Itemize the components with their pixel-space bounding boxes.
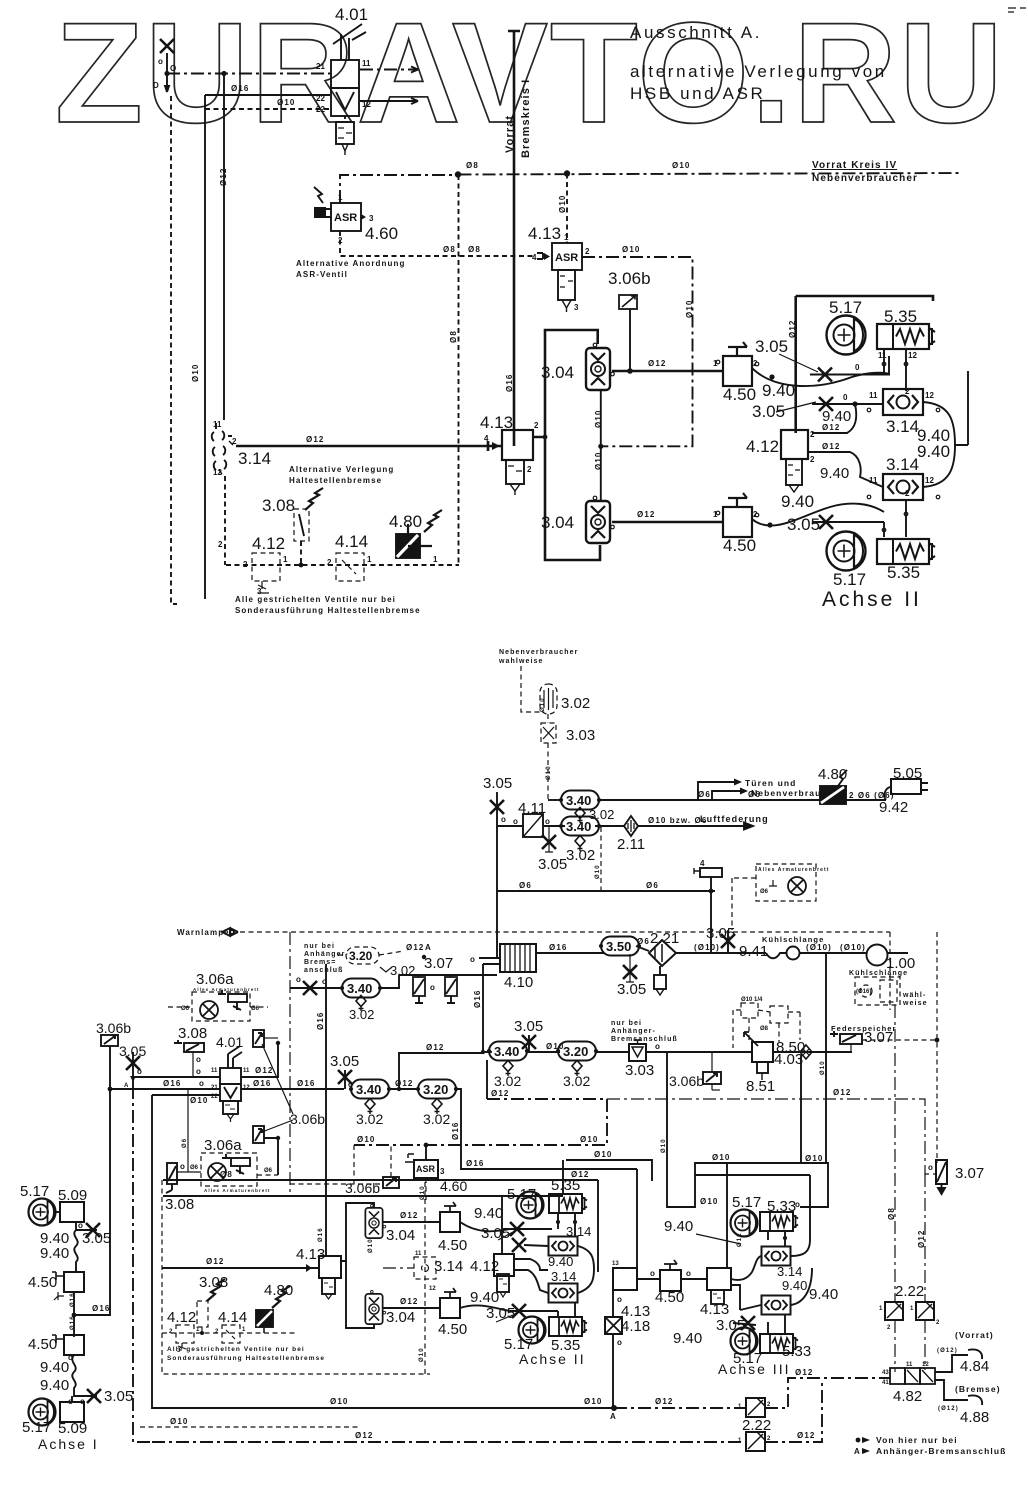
svg-text:O: O — [170, 64, 176, 73]
svg-text:Ø12: Ø12 — [637, 510, 655, 519]
svg-text:Achse III: Achse III — [718, 1361, 790, 1377]
svg-text:3.05: 3.05 — [514, 1018, 543, 1035]
svg-text:2: 2 — [527, 465, 532, 474]
svg-text:3.08: 3.08 — [262, 496, 295, 515]
dashed pilot sub-circuit above 8.50 — [733, 1003, 800, 1048]
svg-text:Ø12: Ø12 — [255, 1066, 273, 1075]
svg-text:3.20: 3.20 — [563, 1044, 588, 1059]
svg-text:Ø16: Ø16 — [505, 374, 514, 392]
svg-text:Ø12: Ø12 — [426, 1043, 444, 1052]
svg-text:Von hier nur bei: Von hier nur bei — [876, 1435, 958, 1445]
wire: feeds above axle III — [667, 1052, 828, 1207]
svg-text:11: 11 — [869, 476, 878, 485]
wire: dash-dot to trailer 2.22 (left) — [894, 1005, 896, 1302]
wire: dashed bus y=565 — [226, 564, 459, 566]
svg-text:Ø16: Ø16 — [466, 1159, 484, 1168]
svg-text:3.02: 3.02 — [589, 807, 614, 822]
svg-text:3.14: 3.14 — [886, 417, 919, 436]
wire: bottom dash-dot line y=1442 — [152, 1441, 746, 1443]
check valve 3.03 — [629, 1040, 646, 1061]
wire: O12 from 3.04 bottom to 4.50 bottom — [612, 521, 723, 524]
svg-text:3.07: 3.07 — [424, 955, 453, 972]
svg-text:Ø8: Ø8 — [760, 1026, 769, 1032]
svg-text:9.40: 9.40 — [781, 492, 814, 511]
wire: cross line — [524, 1245, 548, 1246]
wire: x=483 down from dryer stub to row 1052 — [482, 964, 484, 1052]
svg-text:3.02: 3.02 — [561, 695, 590, 712]
text: Von hier nur bei — [856, 1438, 861, 1443]
svg-text:Ø10: Ø10 — [685, 300, 694, 318]
wire: ASR 4.60 port1 up and dash-dot to junction — [340, 175, 456, 203]
svg-text:3.05: 3.05 — [82, 1230, 111, 1247]
svg-text:ASR: ASR — [416, 1164, 436, 1174]
svg-text:Alle gestrichelten Ventile nur: Alle gestrichelten Ventile nur bei — [167, 1346, 305, 1353]
svg-text:11: 11 — [362, 59, 371, 68]
svg-text:o: o — [158, 57, 163, 66]
svg-text:3.40: 3.40 — [347, 981, 372, 996]
svg-text:Ø10 1/4: Ø10 1/4 — [741, 997, 763, 1003]
wire: Vorrat Bremskreis I vertical line — [508, 31, 520, 446]
svg-text:1: 1 — [564, 233, 569, 242]
svg-text:4.50: 4.50 — [28, 1336, 57, 1353]
svg-text:9.40: 9.40 — [820, 465, 849, 482]
regulator under ASR 4.13 — [558, 270, 575, 312]
svg-text:Ø6: Ø6 — [698, 790, 711, 799]
pressure reducer 3.06b (lower symbol) — [253, 1126, 264, 1143]
svg-text:Ø16: Ø16 — [451, 1122, 460, 1140]
svg-text:Nebenverbraucher: Nebenverbraucher — [812, 173, 918, 184]
svg-text:12: 12 — [925, 476, 934, 485]
wire: inner dashed box right edge — [424, 1182, 426, 1374]
svg-text:3.05: 3.05 — [104, 1388, 133, 1405]
svg-text:Ø16: Ø16 — [318, 1227, 324, 1242]
svg-text:Ø10: Ø10 — [368, 1238, 374, 1253]
wire: feed row y=1262 — [162, 1267, 319, 1269]
svg-text:Ø10: Ø10 — [558, 195, 567, 213]
svg-text:3.05: 3.05 — [787, 515, 820, 534]
svg-text:o: o — [545, 817, 550, 826]
regulator under 4.01 — [336, 116, 354, 155]
svg-text:(Ø12): (Ø12) — [937, 1348, 958, 1354]
svg-text:o: o — [655, 1042, 660, 1051]
svg-text:Achse II: Achse II — [519, 1351, 586, 1367]
svg-text:Anhänger-: Anhänger- — [611, 1028, 656, 1035]
svg-text:2: 2 — [905, 489, 910, 498]
svg-text:2.11: 2.11 — [617, 836, 645, 853]
svg-text:11: 11 — [213, 420, 222, 429]
svg-text:2: 2 — [753, 359, 758, 368]
svg-text:4: 4 — [700, 859, 705, 868]
svg-text:Alles Armaturenbrett: Alles Armaturenbrett — [758, 867, 830, 873]
wire: row continues to 8.50 — [712, 1051, 753, 1053]
wire: bottom coupling to spring brake bottom — [884, 500, 906, 537]
svg-text:3.02: 3.02 — [563, 1073, 590, 1089]
svg-text:3.05: 3.05 — [483, 775, 512, 792]
svg-text:2: 2 — [232, 437, 237, 446]
svg-text:(Bremse): (Bremse) — [955, 1384, 1001, 1394]
svg-text:Ø8: Ø8 — [466, 161, 479, 170]
ABS valve 3.04 (bottom diagram bottom) — [365, 1290, 385, 1324]
svg-text:(Ø16): (Ø16) — [856, 989, 871, 995]
svg-text:11: 11 — [869, 391, 878, 400]
svg-text:41: 41 — [882, 1380, 889, 1386]
svg-text:Ø12: Ø12 — [219, 168, 228, 186]
coupling 3.14 (axle III lower) — [762, 1296, 791, 1315]
wire: row y=1077 to 3.06b top — [133, 1076, 220, 1078]
svg-text:3.20: 3.20 — [423, 1082, 448, 1097]
svg-text:o: o — [180, 1162, 185, 1171]
wire: O12 to hand valves — [383, 1221, 440, 1223]
svg-text:Ø10: Ø10 — [190, 1096, 208, 1105]
brake chamber 5.17 (bottom) — [519, 1317, 546, 1344]
svg-text:Vorrat: Vorrat — [504, 115, 516, 153]
svg-text:Ø10: Ø10 — [672, 161, 690, 170]
wire: from 4.01 port 11 to right arrow — [360, 67, 418, 73]
svg-text:3.06b: 3.06b — [608, 269, 651, 288]
svg-text:2: 2 — [810, 430, 815, 439]
svg-text:11: 11 — [906, 1362, 913, 1368]
svg-text:3: 3 — [574, 303, 579, 312]
valve 4.13 (axle II bottom cluster) — [613, 1268, 637, 1290]
wire: dash-dot from 925 down to 2.22 — [924, 1174, 926, 1302]
svg-text:Ø16: Ø16 — [473, 990, 482, 1008]
svg-text:3.40: 3.40 — [566, 819, 591, 834]
svg-text:A: A — [425, 943, 431, 952]
svg-text:9.40: 9.40 — [917, 442, 950, 461]
svg-text:Ø8: Ø8 — [443, 245, 456, 254]
wire: 4.12 lower port to bottom coupling — [808, 452, 883, 487]
svg-text:ASR-Ventil: ASR-Ventil — [296, 270, 348, 279]
svg-text:A: A — [610, 1412, 616, 1421]
svg-text:12: 12 — [243, 1085, 250, 1091]
svg-text:Ø10: Ø10 — [820, 1060, 826, 1075]
svg-text:o: o — [78, 1221, 83, 1230]
svg-text:12: 12 — [925, 391, 934, 400]
overflow valve 3.20 on main row — [416, 1080, 457, 1099]
wire: line right of 4.01 port 12 — [360, 98, 418, 104]
svg-text:Ø12: Ø12 — [655, 1397, 673, 1406]
svg-text:Alternative Anordnung: Alternative Anordnung — [296, 259, 405, 268]
svg-text:3.06b: 3.06b — [669, 1073, 704, 1089]
svg-text:2: 2 — [810, 455, 815, 464]
overflow valve 3.40 row y=988 — [290, 987, 344, 989]
wire: big dashed box right edge — [889, 932, 891, 1010]
svg-text:Ø12: Ø12 — [833, 1088, 851, 1097]
svg-text:Ø12: Ø12 — [306, 435, 324, 444]
wire: supply loop from 4.13 to both 3.04 valves — [533, 330, 598, 437]
wire: line y=800 to 4.80 and 5.05 — [599, 799, 886, 801]
coupling 3.14 (lower) — [549, 1284, 578, 1303]
svg-text:9.40: 9.40 — [782, 1278, 807, 1293]
svg-text:Ø10: Ø10 — [419, 1347, 425, 1362]
spring brake 5.33 (bottom) — [760, 1334, 798, 1353]
svg-text:9.40: 9.40 — [40, 1359, 69, 1376]
wire: top right supply line and drop to 4.12 — [796, 296, 933, 301]
svg-text:9.40: 9.40 — [809, 1286, 838, 1303]
svg-text:Ø8: Ø8 — [449, 330, 458, 343]
svg-text:4.80: 4.80 — [389, 512, 422, 531]
brace right 9.40 — [791, 1175, 812, 1305]
wire: dashed down from 3.03 to line — [547, 743, 549, 800]
svg-text:21: 21 — [316, 62, 325, 71]
svg-text:3.14: 3.14 — [777, 1264, 802, 1279]
svg-text:o: o — [196, 1055, 201, 1064]
valve 3.08 (lower left) — [166, 1163, 177, 1196]
svg-text:Ø10 bzw. Ø6: Ø10 bzw. Ø6 — [648, 816, 707, 825]
svg-text:(Ø10): (Ø10) — [694, 943, 720, 952]
svg-text:Ø10: Ø10 — [357, 1135, 375, 1144]
wire: dash-dot supply line y=73.5 into 4.01 port 21 — [167, 73, 330, 75]
svg-text:(Ø10): (Ø10) — [806, 943, 832, 952]
svg-text:Brems=: Brems= — [304, 959, 336, 966]
svg-text:3.14: 3.14 — [238, 449, 271, 468]
svg-text:Ø16: Ø16 — [253, 1079, 271, 1088]
svg-text:9.40: 9.40 — [40, 1245, 69, 1262]
svg-text:4.88: 4.88 — [960, 1409, 989, 1426]
svg-text:3.06b: 3.06b — [290, 1111, 325, 1127]
drain under 2.21 — [654, 966, 666, 995]
governor on line — [694, 868, 722, 891]
svg-text:9.40: 9.40 — [673, 1330, 702, 1347]
svg-text:Ø12: Ø12 — [797, 1431, 815, 1440]
svg-text:4: 4 — [484, 434, 489, 443]
svg-text:o: o — [501, 815, 506, 824]
svg-text:12: 12 — [213, 468, 222, 477]
wire: x=152 down to bottom right line — [152, 1095, 614, 1408]
svg-text:o: o — [68, 1353, 73, 1362]
svg-text:wahlweise: wahlweise — [498, 658, 544, 665]
svg-text:Ø10: Ø10 — [191, 364, 200, 382]
overflow valve 3.20 row 1052 — [556, 1042, 597, 1061]
svg-text:3.06a: 3.06a — [196, 971, 234, 988]
svg-text:Ø16: Ø16 — [297, 1079, 315, 1088]
svg-text:o: o — [928, 1163, 933, 1172]
wire: compressor line y=953 — [536, 952, 604, 954]
wire: vertical x=497 down to 4.10 — [496, 826, 498, 958]
svg-text:4.13: 4.13 — [296, 1246, 325, 1263]
wire: feed line y=1196 and drop x=517 — [163, 1195, 563, 1197]
svg-text:Ø6: Ø6 — [190, 1165, 199, 1171]
svg-text:Ø12: Ø12 — [648, 359, 666, 368]
wire: feed from x=110 — [72, 1313, 77, 1318]
svg-text:3.05: 3.05 — [330, 1053, 359, 1070]
svg-text:Haltestellenbremse: Haltestellenbremse — [289, 476, 382, 485]
svg-text:Achse II: Achse II — [822, 588, 922, 611]
svg-text:Ø8: Ø8 — [887, 1207, 896, 1220]
regulator under 4.12 — [786, 459, 802, 492]
svg-text:11: 11 — [878, 351, 887, 360]
brace 9.40 — [578, 1246, 594, 1293]
svg-text:o: o — [617, 1338, 622, 1347]
wire: vertical O12 solid line x=224 — [223, 74, 225, 421]
svg-text:21: 21 — [211, 1085, 218, 1091]
svg-text:3.14: 3.14 — [566, 1224, 591, 1239]
svg-text:1: 1 — [433, 555, 438, 564]
svg-text:3.02: 3.02 — [349, 1007, 374, 1022]
svg-text:3.03: 3.03 — [625, 1062, 654, 1079]
spring brake 5.35 (bottom) — [549, 1317, 587, 1336]
svg-text:13: 13 — [612, 1261, 619, 1267]
svg-text:3.08: 3.08 — [165, 1196, 194, 1213]
svg-text:nur bei: nur bei — [611, 1020, 642, 1027]
wire: dashed drop to 3.02 — [521, 666, 540, 712]
svg-text:Luftfederung: Luftfederung — [700, 814, 769, 824]
drain 3.02 under — [575, 836, 585, 852]
wire: hook from axle line down to 4.12 top port — [812, 404, 856, 433]
svg-text:11: 11 — [243, 1068, 250, 1074]
svg-text:4: 4 — [532, 253, 537, 262]
wire: x=188 drop from row 1089 — [187, 1089, 189, 1172]
svg-text:3.05: 3.05 — [486, 1305, 515, 1322]
svg-text:Ø10: Ø10 — [580, 1135, 598, 1144]
svg-text:3.03: 3.03 — [566, 727, 595, 744]
svg-text:Nebenverbraucher: Nebenverbraucher — [499, 649, 578, 656]
svg-text:Türen und: Türen und — [745, 778, 796, 788]
svg-text:9.41: 9.41 — [739, 943, 768, 960]
svg-text:3.02: 3.02 — [423, 1111, 450, 1127]
svg-text:ASR: ASR — [555, 252, 578, 264]
svg-text:5.17: 5.17 — [833, 570, 866, 589]
svg-text:3.40: 3.40 — [356, 1082, 381, 1097]
svg-text:Alle gestrichelten Ventile nur: Alle gestrichelten Ventile nur bei — [235, 595, 396, 604]
node D test connection cross — [160, 39, 174, 53]
svg-text:3.08: 3.08 — [178, 1025, 207, 1042]
svg-text:Ø10: Ø10 — [170, 1417, 188, 1426]
svg-text:A: A — [854, 1447, 860, 1456]
svg-text:Ø12: Ø12 — [737, 1232, 743, 1247]
wire: A node and bottom lines — [611, 1405, 617, 1411]
svg-text:Ø12: Ø12 — [400, 1211, 418, 1220]
svg-text:3.50: 3.50 — [606, 939, 631, 954]
svg-text:1: 1 — [283, 555, 288, 564]
svg-text:weise: weise — [902, 1000, 928, 1007]
svg-text:Ø10: Ø10 — [330, 1397, 348, 1406]
svg-text:Ø12: Ø12 — [395, 1079, 413, 1088]
svg-text:o: o — [199, 1079, 204, 1088]
svg-text:Ø6: Ø6 — [182, 1138, 188, 1148]
pressure reducer 3.06b (top symbol) — [253, 1030, 264, 1047]
overflow valve 3.40 (to Luftfederung) — [559, 817, 600, 836]
wire: x=326 vertical dryer feed to lower 4.13 — [325, 964, 327, 1256]
svg-text:o: o — [196, 1067, 201, 1076]
wire: right side brace 9.40/9.40 — [923, 371, 968, 487]
svg-text:nur bei: nur bei — [304, 943, 335, 950]
svg-text:3.02: 3.02 — [494, 1073, 521, 1089]
svg-text:alternative Verlegung von: alternative Verlegung von — [630, 62, 887, 81]
svg-text:Ø16: Ø16 — [549, 943, 567, 952]
svg-text:9.40: 9.40 — [762, 381, 795, 400]
svg-text:Ø16: Ø16 — [70, 1315, 76, 1330]
svg-text:o: o — [686, 1269, 691, 1278]
svg-text:Ø10: Ø10 — [540, 697, 546, 712]
svg-text:Ø12: Ø12 — [571, 1170, 589, 1179]
svg-text:9.40: 9.40 — [548, 1254, 573, 1269]
wire: governor drop to compressor row — [710, 891, 712, 953]
svg-text:3.06b: 3.06b — [345, 1180, 380, 1196]
wire: x=110 down to Achse I feed — [76, 1089, 110, 1315]
svg-text:4.84: 4.84 — [960, 1358, 989, 1375]
wire: main row y=1089 — [110, 1088, 220, 1090]
svg-text:4.50: 4.50 — [438, 1321, 467, 1338]
wire: vertical x=826 tank branch — [825, 953, 827, 1163]
svg-text:Ø12: Ø12 — [917, 1230, 926, 1248]
coupling 3.14 (axle III upper) — [762, 1247, 791, 1266]
wire: O12 from 3.04 top to 4.50 top — [612, 370, 723, 373]
svg-text:5.17: 5.17 — [829, 298, 862, 317]
svg-text:4.82: 4.82 — [893, 1388, 922, 1405]
svg-text:Kühlschlange: Kühlschlange — [849, 970, 908, 977]
svg-text:3.05: 3.05 — [755, 337, 788, 356]
svg-text:(Vorrat): (Vorrat) — [955, 1330, 994, 1340]
svg-text:2.21: 2.21 — [650, 930, 679, 947]
svg-text:1: 1 — [713, 510, 718, 519]
dashed instrument panel box (Alles Armaturenbrett) — [732, 864, 816, 930]
svg-text:43: 43 — [882, 1370, 889, 1376]
svg-text:3.04: 3.04 — [386, 1227, 415, 1244]
svg-text:3.04: 3.04 — [541, 363, 574, 382]
svg-text:1: 1 — [713, 359, 718, 368]
wire: arrow to Luftfederung — [638, 823, 753, 830]
svg-text:o: o — [795, 1200, 800, 1209]
svg-text:(Ø10): (Ø10) — [840, 943, 866, 952]
svg-text:3.06a: 3.06a — [204, 1137, 242, 1154]
svg-text:3.14: 3.14 — [886, 455, 919, 474]
svg-text:Ø12: Ø12 — [355, 1431, 373, 1440]
wire: supply loop to 3.04 valves — [341, 1203, 374, 1261]
circuit protection valve 3.50 — [599, 937, 640, 956]
svg-text:Ø6: Ø6 — [519, 881, 532, 890]
svg-text:9.40: 9.40 — [470, 1289, 499, 1306]
svg-text:o: o — [470, 955, 475, 964]
svg-text:3.20: 3.20 — [349, 949, 373, 963]
test cross 3.05 under 3.50 — [626, 954, 634, 982]
svg-text:2: 2 — [327, 558, 332, 567]
svg-text:Alles Armaturenbrett: Alles Armaturenbrett — [204, 1188, 271, 1193]
corner mark — [1008, 8, 1026, 12]
svg-text:3.40: 3.40 — [566, 793, 591, 808]
svg-text:0: 0 — [855, 363, 860, 372]
svg-text:2: 2 — [585, 247, 590, 256]
svg-text:Ø12: Ø12 — [406, 943, 424, 952]
svg-text:Ø10: Ø10 — [546, 765, 552, 780]
coupling 3.14 (top-left) — [212, 423, 233, 474]
svg-text:Ø8: Ø8 — [220, 1170, 233, 1179]
svg-text:4.50: 4.50 — [723, 536, 756, 555]
svg-text:3.07: 3.07 — [955, 1165, 984, 1182]
svg-text:8.51: 8.51 — [746, 1078, 775, 1095]
svg-text:3.40: 3.40 — [494, 1044, 519, 1059]
wire: line y=891 governor row — [497, 890, 715, 892]
wire: dashed vertical x=458.5 from junction down to bus — [458, 175, 460, 565]
svg-text:3.05: 3.05 — [617, 981, 646, 998]
wire: x=483 from row1052 junction — [481, 1050, 485, 1054]
svg-text:Ø6: Ø6 — [637, 937, 650, 946]
wire: 4.12 to couplings — [514, 1259, 548, 1270]
wire: ASR 4.60 port2 down and dashed to 4.13 port4 — [340, 231, 536, 256]
svg-text:2: 2 — [218, 540, 223, 549]
wire: dash-dot rows mid — [354, 1099, 607, 1145]
svg-text:Ø10: Ø10 — [277, 98, 295, 107]
svg-text:3.05: 3.05 — [538, 856, 567, 873]
svg-text:9.40: 9.40 — [664, 1218, 693, 1235]
svg-text:Sonderausführung Haltestellenb: Sonderausführung Haltestellenbremse — [235, 606, 421, 615]
wire: vertical O10 dashed long line x=171 — [171, 96, 177, 604]
wire: vertical x=636 — [636, 1169, 638, 1272]
wire: coupling to spring brake bottom — [558, 1302, 575, 1317]
wire: branch L to row 1053 — [399, 1053, 483, 1089]
wire: dashed drop x=601 — [600, 827, 602, 891]
wire: pilot verticals to 3.04 valves — [600, 391, 602, 501]
